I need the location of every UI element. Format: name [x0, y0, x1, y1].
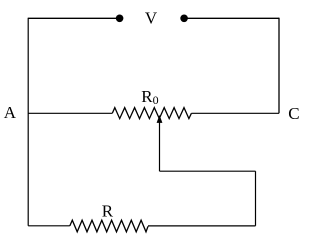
svg-text:V: V: [145, 8, 158, 27]
wire wiper step horizontal: [160, 170, 256, 172]
svg-text:R: R: [102, 201, 114, 220]
wire bottom-right horizontal: [148, 225, 256, 227]
wire bottom-left horizontal: [28, 225, 70, 227]
wiper shaft wire: [159, 122, 161, 172]
wire node A horizontal: [28, 112, 112, 114]
wire top-right horizontal: [184, 17, 279, 19]
wire top-left horizontal: [28, 17, 119, 19]
voltmeter terminal dot left: [116, 14, 124, 22]
wiper arrowhead: [157, 116, 162, 123]
svg-text:C: C: [288, 104, 299, 123]
resistor R0 zigzag: [112, 108, 191, 119]
svg-text:A: A: [4, 103, 17, 122]
voltmeter terminal dot right: [180, 14, 188, 22]
wire left vertical: [27, 18, 29, 226]
resistor R zigzag: [70, 220, 148, 232]
wire node C horizontal: [191, 112, 279, 114]
wire lower-right vertical: [255, 171, 257, 226]
wire right vertical: [278, 18, 280, 114]
